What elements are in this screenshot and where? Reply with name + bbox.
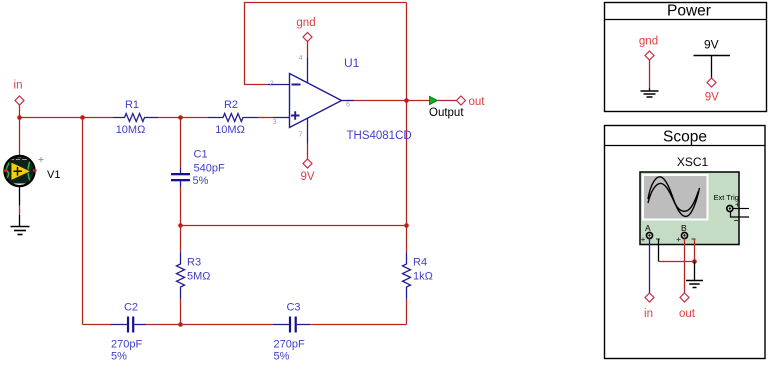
wire scope B- down xyxy=(694,239,696,262)
wire R4 bottom xyxy=(406,299,408,325)
svg-text:Power: Power xyxy=(667,3,711,20)
node gnd xyxy=(296,17,315,42)
svg-text:1kΩ: 1kΩ xyxy=(413,271,433,283)
wire output vertical xyxy=(406,3,408,226)
wire output xyxy=(354,100,430,102)
svg-text:U1: U1 xyxy=(344,56,360,70)
svg-text:4: 4 xyxy=(299,53,303,62)
wire scope A- down xyxy=(658,239,660,262)
wire R3 bottom xyxy=(180,299,182,325)
pin 6 lead xyxy=(342,100,355,102)
wire R3 top xyxy=(180,226,182,253)
node out scope xyxy=(679,293,696,320)
svg-text:gnd: gnd xyxy=(639,36,658,48)
svg-text:out: out xyxy=(469,96,486,108)
svg-text:5MΩ: 5MΩ xyxy=(187,271,211,283)
ground power xyxy=(641,91,659,97)
capacitor C3 xyxy=(273,302,310,363)
capacitor C1 xyxy=(171,149,225,188)
node in scope xyxy=(644,293,654,320)
wire R4 top xyxy=(406,226,408,253)
junction left vertical xyxy=(80,115,85,120)
V1 polarity mark xyxy=(39,157,44,162)
wire pin7 to 9V xyxy=(307,144,309,160)
wire mid horizontal xyxy=(181,225,407,227)
wire R2 to op-amp xyxy=(258,117,273,119)
node in xyxy=(14,80,24,106)
capacitor C2 xyxy=(111,302,147,363)
svg-text:2: 2 xyxy=(270,79,274,88)
bottom rail right xyxy=(310,324,407,326)
svg-text:5%: 5% xyxy=(274,351,290,363)
wire gnd power xyxy=(649,60,651,88)
svg-text:5%: 5% xyxy=(111,351,127,363)
wire R1 to node A xyxy=(158,117,208,119)
wire scope B to out xyxy=(684,239,686,294)
panel Scope xyxy=(605,126,766,359)
left vertical wire xyxy=(82,118,84,325)
junction bottom rail R3 xyxy=(178,322,183,327)
wire scope A to in xyxy=(649,239,651,294)
pin 2 lead xyxy=(268,84,290,86)
wire scope minus horizontal xyxy=(659,261,695,263)
resistor R2 xyxy=(208,99,258,136)
node 9V opamp xyxy=(300,159,314,183)
svg-text:R4: R4 xyxy=(413,257,427,269)
svg-text:THS4081CD: THS4081CD xyxy=(347,130,412,142)
wire in-diamond to V1 xyxy=(19,105,21,156)
svg-text:C1: C1 xyxy=(194,149,208,161)
oscilloscope XSC1 xyxy=(640,172,749,245)
svg-text:7: 7 xyxy=(299,130,303,139)
svg-text:V1: V1 xyxy=(47,169,60,181)
junction R4 top xyxy=(404,223,409,228)
resistor R1 xyxy=(113,99,158,136)
bottom rail mid xyxy=(146,324,273,326)
pin 7 lead xyxy=(307,119,309,144)
svg-text:out: out xyxy=(679,308,696,320)
svg-text:10MΩ: 10MΩ xyxy=(215,124,245,136)
svg-text:540pF: 540pF xyxy=(194,163,225,175)
power symbol 9V xyxy=(694,38,731,104)
svg-text:9V: 9V xyxy=(705,92,719,104)
svg-text:R2: R2 xyxy=(224,99,238,111)
svg-text:9V: 9V xyxy=(300,171,314,183)
bottom rail left xyxy=(83,324,111,326)
junction at in/V1 xyxy=(17,115,22,120)
svg-text:B: B xyxy=(681,223,687,233)
svg-text:in: in xyxy=(644,308,653,320)
wire gnd to pin4 xyxy=(307,42,309,58)
junction mid node xyxy=(178,223,183,228)
pin 3 lead xyxy=(273,117,290,119)
svg-text:Output: Output xyxy=(429,107,464,119)
svg-text:5%: 5% xyxy=(193,175,209,187)
source V1 xyxy=(3,156,37,188)
svg-text:270pF: 270pF xyxy=(111,339,142,351)
junction output xyxy=(404,98,409,103)
node gnd power xyxy=(639,36,658,61)
svg-text:Scope: Scope xyxy=(663,129,707,146)
wire main horizontal to R1 xyxy=(20,117,114,119)
wire to scope ground xyxy=(694,262,696,281)
wire V1 to ground xyxy=(19,187,21,206)
svg-text:3: 3 xyxy=(273,117,277,126)
junction node R1-R2-C1 xyxy=(178,115,183,120)
svg-text:R3: R3 xyxy=(187,257,201,269)
feedback wire pin2 xyxy=(245,3,407,85)
svg-text:R1: R1 xyxy=(125,99,139,111)
junction scope ground xyxy=(692,259,697,264)
node out xyxy=(457,96,486,108)
wire arrow to out xyxy=(438,100,457,102)
svg-text:in: in xyxy=(14,80,23,92)
pin 4 lead xyxy=(307,58,309,83)
svg-text:270pF: 270pF xyxy=(274,339,305,351)
svg-text:6: 6 xyxy=(346,100,350,109)
svg-text:C2: C2 xyxy=(124,302,138,314)
ground scope xyxy=(686,281,703,288)
svg-text:C3: C3 xyxy=(286,302,300,314)
svg-text:9V: 9V xyxy=(704,38,719,52)
ground V1 xyxy=(11,227,30,235)
svg-text:A: A xyxy=(645,223,651,233)
panel Power xyxy=(605,3,767,112)
resistor R4 xyxy=(403,253,433,299)
wire C1 top xyxy=(180,118,182,169)
resistor R3 xyxy=(177,253,211,299)
svg-text:Ext Trig: Ext Trig xyxy=(714,193,739,202)
op-amp U1 xyxy=(290,74,342,128)
output arrow xyxy=(430,96,438,104)
svg-text:XSC1: XSC1 xyxy=(677,155,709,169)
wire C1 bottom xyxy=(180,187,182,226)
svg-text:10MΩ: 10MΩ xyxy=(116,124,146,136)
svg-text:gnd: gnd xyxy=(296,17,315,29)
